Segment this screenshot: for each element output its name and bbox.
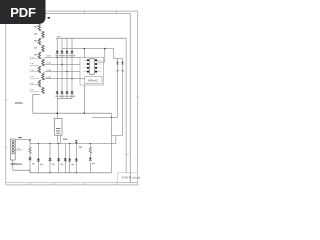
diode D3	[66, 51, 69, 53]
op-amp U1 body	[90, 59, 94, 75]
node dot at x=104.8	[104, 48, 106, 50]
diode D6	[61, 91, 64, 93]
label above anode bus	[57, 35, 61, 37]
border tick bottom at x=54	[53, 183, 55, 185]
wire J1 top lead	[15, 140, 30, 144]
wire LED column 2	[61, 38, 63, 98]
svg-text:8 Pin IC: 8 Pin IC	[88, 79, 98, 83]
capacitor C3 column	[58, 144, 60, 173]
border tick left at y=147	[5, 146, 7, 148]
wire Q1 column	[117, 58, 119, 117]
U1 label box	[85, 76, 102, 83]
wire top rail	[45, 14, 130, 183]
ladder stub labels	[30, 57, 34, 89]
wire rail upturn	[115, 135, 117, 143]
wire D10 column	[75, 144, 77, 173]
capacitor C2 column	[49, 144, 51, 173]
wire LED column 4	[71, 38, 73, 98]
page outer border frame	[6, 11, 138, 185]
svg-text:B/MVFeb: B/MVFeb	[11, 162, 23, 166]
wire tap 4	[43, 79, 84, 80]
diode D8	[71, 91, 74, 93]
diode D7	[66, 91, 69, 93]
node junction near badge	[48, 17, 50, 19]
border tick right at y=97	[137, 96, 139, 98]
wire ladder stubs left	[30, 59, 39, 92]
wire VR1 outputs	[57, 135, 60, 143]
border tick left at y=99.5	[5, 99, 7, 101]
diode D2	[61, 51, 64, 53]
node dots on supply rail	[38, 143, 91, 144]
transistor Q2	[121, 62, 123, 64]
inner bottom border line	[6, 182, 138, 184]
wire LED column 1	[56, 38, 58, 113]
resistor R12 + LED column	[89, 144, 91, 173]
border tick top at x=116.7	[116, 10, 118, 13]
wire Q2 column	[122, 58, 124, 135]
capacitor C1 column	[37, 144, 39, 173]
transistor Q1	[116, 62, 118, 64]
capacitor C4 column	[64, 144, 66, 173]
border tick top at x=84.5	[84, 10, 86, 13]
wire Q2 return	[112, 134, 123, 136]
diode D5	[56, 91, 59, 93]
voltage regulator VR1 feed	[56, 113, 58, 118]
voltage regulator VR1 box	[54, 118, 62, 135]
labels D1-D4	[56, 55, 76, 57]
wire cathode bus bottom	[57, 98, 72, 100]
title block	[118, 173, 141, 183]
svg-text:PDF: PDF	[10, 5, 36, 20]
border tick bottom at x=116.7	[116, 183, 118, 185]
tap labels	[47, 56, 51, 77]
border tick bottom at x=84.5	[84, 183, 86, 185]
PDF badge	[0, 0, 46, 24]
node dot at x=84.3	[84, 48, 86, 50]
connector J1 box	[10, 139, 15, 160]
diode D1	[56, 51, 59, 53]
svg-text:wee: wee	[63, 138, 68, 141]
VR1 text	[56, 129, 60, 134]
wire supply rail	[30, 143, 116, 145]
op-amp U1 outer box	[80, 57, 104, 85]
node dots on rail	[57, 113, 58, 114]
wire right loop B	[125, 38, 127, 173]
wire chain bottom drop	[33, 95, 40, 114]
wire LED column 3	[66, 38, 68, 98]
labels Q1 Q2	[117, 70, 124, 72]
svg-text:100Pw: 100Pw	[15, 101, 24, 105]
wire IC top feed	[83, 49, 85, 59]
node dot J1 wire	[29, 139, 31, 141]
svg-text:9706.IP.u/code: 9706.IP.u/code	[122, 175, 141, 179]
U1 pin stubs	[85, 60, 99, 71]
node dots on ground bus	[49, 172, 77, 173]
wire tap 2	[43, 65, 80, 66]
diode D4	[71, 51, 74, 53]
node dots taps to bus	[57, 57, 73, 80]
wire ground bus	[13, 170, 112, 173]
wire U1 ground drop	[83, 85, 85, 113]
wire main mid rail	[33, 112, 112, 114]
J1 second tap	[15, 149, 22, 151]
wire upper return branch	[92, 117, 118, 119]
U1 pins left	[87, 59, 89, 72]
label W1	[18, 137, 21, 139]
wire anode bus horizontal	[56, 37, 126, 39]
tick on loop B	[126, 153, 129, 155]
labels D5-D8	[56, 95, 76, 97]
node dot return cross	[111, 117, 112, 118]
wire tap 3	[43, 72, 80, 73]
wire control line	[62, 49, 123, 59]
node dot	[57, 112, 59, 114]
wire right return	[111, 113, 113, 173]
J1 coil pins	[12, 140, 14, 154]
diode D10 on rail	[75, 140, 77, 143]
resistor value labels left of chain	[34, 27, 37, 55]
node dot	[84, 112, 86, 114]
U1 pin number specks	[83, 60, 101, 71]
border tick bottom at x=30	[29, 183, 31, 185]
J1 lower lead	[12, 160, 14, 170]
wire chain interconnects	[39, 31, 43, 88]
wire IC right feed	[97, 49, 105, 62]
input column R11 + D9	[29, 144, 31, 173]
resistor chain R1-R10 column	[38, 25, 44, 94]
wire tap 1	[43, 57, 80, 58]
U1 pins right	[95, 59, 97, 72]
capacitor C5 column	[69, 144, 71, 173]
